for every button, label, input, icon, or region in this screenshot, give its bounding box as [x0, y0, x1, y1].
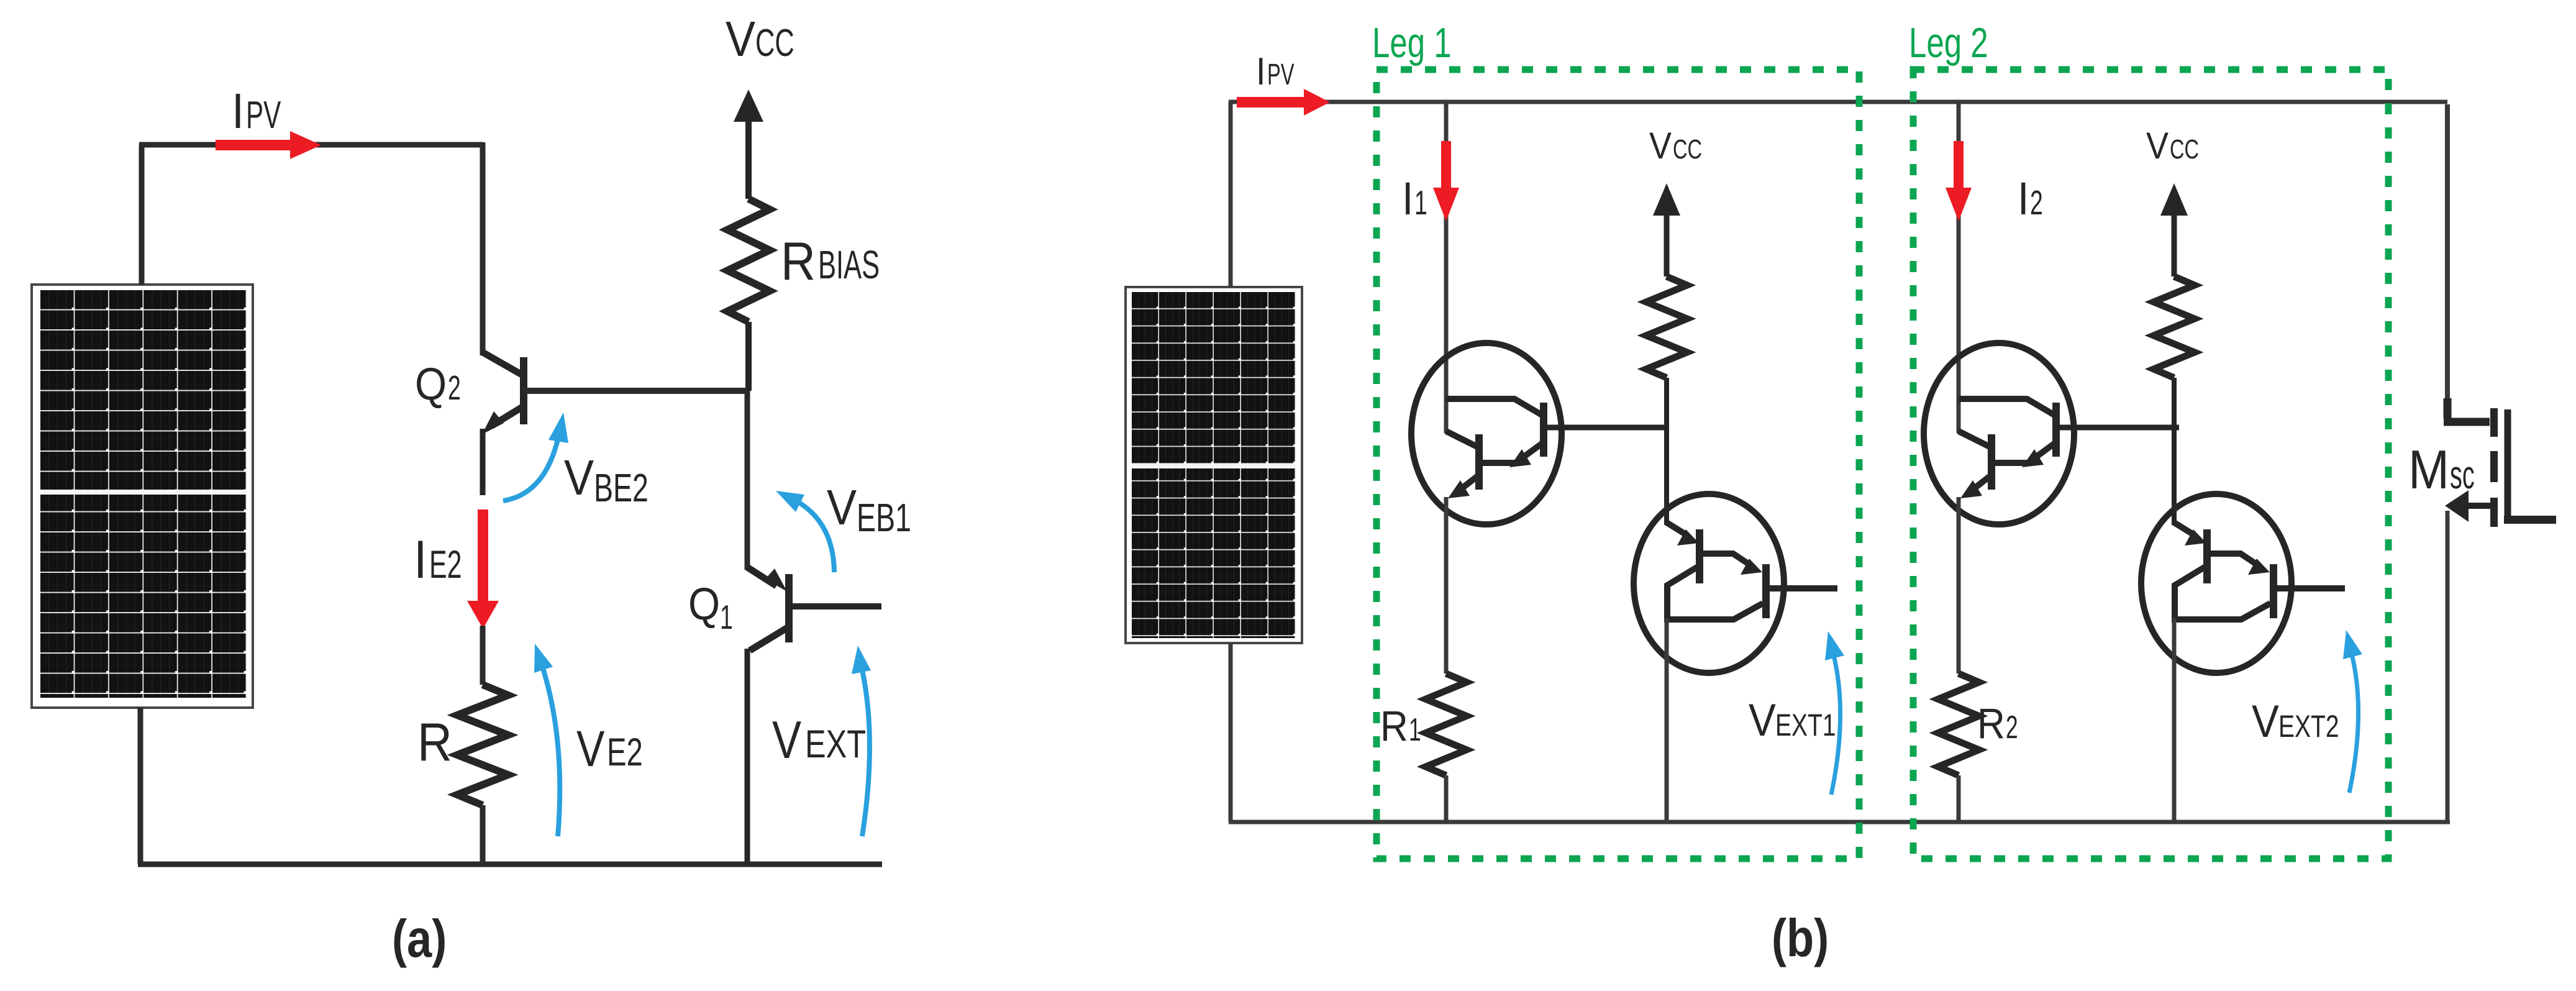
voltage arrow VEXT2: [2349, 654, 2359, 793]
label VEXT: [772, 710, 866, 770]
wire: bottom rail (b): [1229, 820, 2450, 824]
voltage arrow VBE2: [503, 437, 558, 501]
voltage arrow VEXT1: [1831, 655, 1841, 795]
wire: collector drop of Q2: [480, 142, 486, 355]
svg-text:I: I: [232, 84, 244, 139]
wire: IE2 node to resistor R: [480, 626, 486, 685]
label IPV (a): [232, 84, 281, 139]
svg-text:2: 2: [2030, 183, 2043, 222]
svg-text:EB1: EB1: [857, 495, 911, 540]
voltage arrow VEXT: [862, 670, 870, 836]
transistor pair Q6 column with VCC bias resistor (leg 2): [2141, 183, 2345, 822]
transistor Q1: [747, 567, 881, 864]
svg-text:CC: CC: [2170, 134, 2199, 165]
svg-text:V: V: [726, 12, 755, 67]
label Msc: [2408, 439, 2475, 500]
svg-text:BIAS: BIAS: [818, 242, 880, 288]
svg-text:2: 2: [2006, 710, 2018, 745]
svg-text:E2: E2: [429, 543, 462, 587]
svg-text:R: R: [1380, 702, 1408, 750]
wire: bottom rail (a): [138, 862, 882, 867]
svg-text:Leg 2: Leg 2: [1909, 19, 1988, 66]
svg-text:BE2: BE2: [594, 465, 649, 510]
PV panel PV_a: [32, 285, 253, 708]
svg-text:I: I: [2018, 173, 2029, 224]
emitter arrowhead of Q1: [765, 569, 787, 591]
wire: panel top to top rail (a): [139, 145, 145, 285]
svg-text:PV: PV: [246, 94, 281, 137]
emitter arrowhead of Q2: [482, 411, 504, 434]
wire: panel bottom to bottom rail (a): [138, 708, 143, 864]
svg-text:V: V: [772, 710, 801, 770]
svg-text:PV: PV: [1267, 58, 1295, 91]
transistor Q2: [483, 352, 524, 495]
label VCC (leg 2): [2146, 125, 2199, 167]
label R2: [1977, 700, 2018, 747]
svg-text:V: V: [564, 450, 594, 506]
svg-text:CC: CC: [1673, 134, 1702, 165]
svg-text:2: 2: [448, 368, 461, 407]
label Q2: [415, 358, 461, 409]
wire: top rail (a): [139, 142, 483, 148]
svg-text:(b): (b): [1772, 908, 1829, 967]
current arrow I2: [1946, 141, 1972, 221]
wire: resistor R to bottom rail: [480, 805, 486, 864]
label VEXT1: [1749, 695, 1836, 746]
svg-text:I: I: [1402, 173, 1414, 224]
wire: Msc source to bottom rail: [2446, 511, 2450, 822]
label R1: [1380, 702, 1421, 750]
svg-text:EXT: EXT: [805, 723, 866, 767]
label VEXT2: [2252, 696, 2339, 747]
voltage arrow VEB1: [798, 502, 834, 572]
label I2: [2018, 173, 2043, 224]
MOSFET Msc gate/channel segment 1: [2490, 408, 2498, 437]
transistor pair Q5 column with resistor R2 (leg 2): [1924, 102, 2179, 822]
svg-text:sc: sc: [2450, 454, 2475, 498]
svg-text:1: 1: [1414, 183, 1427, 222]
svg-text:1: 1: [720, 598, 733, 636]
MOSFET Msc source lead with arrow: [2467, 503, 2490, 509]
label VCC (leg 1): [1649, 125, 1702, 167]
label VBE2: [564, 450, 649, 510]
wire: RBIAS to node A: [745, 322, 752, 391]
svg-text:Q: Q: [415, 358, 447, 409]
svg-text:EXT1: EXT1: [1775, 707, 1836, 742]
MOSFET Msc channel segment 2: [2490, 451, 2498, 482]
wire: node A down to Q1 emitter: [745, 391, 750, 570]
label VEB1: [827, 480, 911, 540]
current arrow IPV (a): [216, 131, 321, 159]
svg-text:CC: CC: [755, 22, 794, 65]
label VCC (a): [726, 12, 794, 67]
voltage arrow VE2: [542, 664, 560, 836]
svg-text:V: V: [576, 720, 604, 777]
svg-text:1: 1: [1409, 712, 1421, 747]
svg-text:V: V: [827, 480, 857, 536]
transistor pair Q4 column with VCC bias resistor (leg 1): [1634, 183, 1837, 822]
current arrow IE2: [467, 509, 499, 629]
resistor R: [457, 685, 508, 805]
wire: base of Q2 to bias node: [524, 388, 749, 394]
svg-text:I: I: [414, 530, 427, 590]
svg-text:Leg 1: Leg 1: [1372, 19, 1452, 66]
label IPV (b): [1256, 50, 1295, 93]
svg-text:I: I: [1256, 50, 1266, 93]
MOSFET Msc channel segment 3: [2490, 498, 2498, 527]
MOSFET Msc gate wire: [2445, 104, 2450, 401]
label Q1: [688, 578, 733, 636]
power arrow VCC (a): [734, 89, 763, 122]
wire: panel b top to top rail (b): [1229, 102, 1233, 287]
svg-text:Q: Q: [688, 578, 720, 629]
wire: panel b bottom to bottom rail (b): [1229, 643, 1233, 822]
transistor pair Q3 column with resistor R1 (leg 1): [1411, 102, 1667, 822]
current arrow IPV (b): [1237, 89, 1330, 116]
svg-text:EXT2: EXT2: [2278, 708, 2339, 744]
svg-text:V: V: [2252, 696, 2279, 747]
current arrow I1: [1433, 141, 1459, 221]
svg-text:V: V: [1649, 125, 1672, 167]
label RBIAS: [781, 232, 880, 291]
Leg 1 dashed boundary box: [1377, 70, 1859, 859]
label VE2: [576, 720, 643, 777]
svg-text:E2: E2: [607, 730, 643, 774]
svg-text:R: R: [781, 232, 816, 291]
svg-text:V: V: [2146, 125, 2169, 167]
svg-text:(a): (a): [392, 909, 447, 968]
svg-text:R: R: [1977, 700, 2005, 747]
svg-text:R: R: [417, 713, 452, 772]
svg-text:V: V: [1749, 695, 1776, 746]
label I1: [1402, 173, 1427, 224]
PV panel PV_b: [1126, 287, 1302, 643]
svg-text:M: M: [2408, 439, 2449, 500]
label IE2: [414, 530, 462, 590]
Leg 2 dashed boundary box: [1913, 70, 2388, 859]
wire: top rail (b): [1229, 100, 2447, 104]
resistor RBIAS: [727, 199, 770, 322]
MOSFET Msc drain bar and lead: [2505, 409, 2511, 519]
